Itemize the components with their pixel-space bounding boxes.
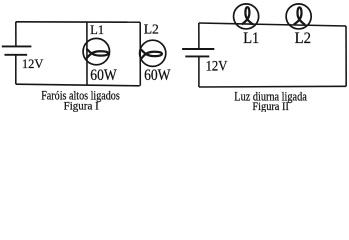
lamp L1 filament loop (figure II) <box>242 7 253 24</box>
svg-text:Figura II: Figura II <box>252 101 289 112</box>
battery B1 long plate (positive) <box>2 45 32 47</box>
svg-text:Figura I: Figura I <box>64 101 99 112</box>
wire: middle branch (through lamp L1) <box>86 22 88 85</box>
wire: left edge upper (corner to battery) <box>198 23 200 49</box>
lamp L1 bulb circle (figure II) <box>234 4 259 29</box>
wire: bottom wire figure II <box>199 85 346 88</box>
svg-text:60W: 60W <box>90 67 117 84</box>
svg-text:L1: L1 <box>243 30 259 47</box>
svg-text:12V: 12V <box>22 56 44 71</box>
svg-text:L2: L2 <box>295 30 311 47</box>
wire: top wire figure I <box>16 21 140 23</box>
wire: left edge lower (battery to bottom corner) <box>15 55 17 84</box>
wire: left edge upper (corner to battery) <box>15 22 17 46</box>
wire: top wire figure II <box>199 23 346 26</box>
lamp L2 filament loop (figure II) <box>294 8 305 25</box>
wire: right edge figure II <box>345 26 347 86</box>
lamp L1 filament loop <box>86 49 108 59</box>
lamp L2 bulb circle (figure II) <box>286 4 311 29</box>
wire: left edge lower (battery to bottom corner) <box>198 57 200 87</box>
battery B2 short plate (negative) <box>185 55 209 57</box>
svg-text:12V: 12V <box>206 58 228 74</box>
lamp L1 bulb circle <box>83 38 109 64</box>
battery B2 long plate (positive) <box>182 48 214 50</box>
battery B1 short plate (negative) <box>5 54 28 56</box>
lamp L2 bulb circle <box>140 40 166 66</box>
lamp L2 filament loop <box>141 49 162 59</box>
svg-text:L1: L1 <box>90 22 104 37</box>
wire: right edge branch (through lamp L2) <box>139 22 141 86</box>
svg-text:L2: L2 <box>144 21 159 36</box>
svg-text:60W: 60W <box>144 67 171 84</box>
wire: bottom wire figure I <box>16 84 140 86</box>
